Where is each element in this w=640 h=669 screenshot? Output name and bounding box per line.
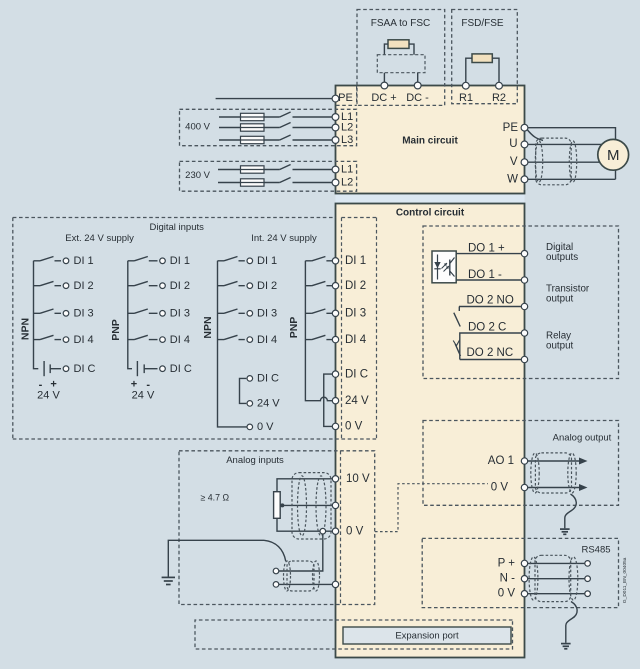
svg-text:DO 1 -: DO 1 - (468, 269, 502, 281)
svg-text:Expansion port: Expansion port (395, 631, 459, 642)
terminal AO 1 (521, 458, 527, 464)
group1 battery 24V (37, 361, 61, 402)
svg-text:DI 4: DI 4 (170, 334, 190, 346)
group3 switch DI 3 (218, 309, 245, 313)
svg-text:230 V: 230 V (185, 170, 210, 181)
svg-text:W: W (507, 173, 518, 185)
svg-text:M: M (607, 147, 620, 164)
group3 switch DI 4 (218, 335, 245, 339)
svg-text:DO 2 NO: DO 2 NO (467, 295, 514, 307)
svg-text:PE: PE (338, 92, 353, 104)
svg-text:R2: R2 (492, 92, 506, 104)
svg-text:L2: L2 (341, 176, 353, 188)
PE supply wire (216, 98, 336, 100)
svg-text:0 V: 0 V (491, 482, 509, 494)
svg-text:DI 3: DI 3 (257, 308, 277, 320)
terminal R2 (496, 82, 503, 89)
group4 switch DI 1 (305, 257, 332, 261)
svg-text:U: U (509, 138, 517, 150)
svg-text:Ext. 24 V supply: Ext. 24 V supply (65, 233, 134, 244)
svg-text:Analog inputs: Analog inputs (226, 455, 284, 466)
terminal L1 (332, 114, 339, 121)
relay actuator arrow (453, 340, 460, 346)
svg-text:FSD/FSE: FSD/FSE (461, 18, 504, 29)
wire module to DC- (417, 73, 419, 86)
svg-text:output: output (546, 294, 574, 305)
terminal DO 1 + (521, 250, 527, 256)
braking resistor (FSAA to FSC) (384, 40, 414, 55)
svg-text:DI C: DI C (170, 363, 192, 375)
svg-text:DI 4: DI 4 (257, 334, 277, 346)
230 V dashed box (180, 161, 357, 191)
svg-text:DI C: DI C (74, 363, 96, 375)
svg-text:DI 2: DI 2 (257, 280, 277, 292)
wire poti bottom to 0V (277, 518, 336, 531)
svg-text:NPN: NPN (202, 316, 214, 338)
svg-text:DO 2 C: DO 2 C (468, 321, 506, 333)
group2 switch DI 3 (128, 309, 158, 313)
motor cable shield (535, 138, 576, 185)
terminal P + (521, 560, 527, 566)
wire DO 2 C (460, 333, 525, 360)
svg-text:0 V: 0 V (345, 421, 363, 433)
relay NO contact hook (458, 307, 460, 312)
terminal 24 V (332, 398, 338, 404)
svg-text:24 V: 24 V (257, 398, 280, 410)
digital outputs dashed box (423, 226, 619, 379)
group4 bus wire to 24V terminal with hop (305, 261, 332, 401)
potentiometer R1 (274, 492, 285, 519)
svg-text:10 V: 10 V (346, 473, 370, 485)
svg-text:24 V: 24 V (132, 390, 155, 402)
wire DO 2 NO (459, 306, 525, 308)
svg-text:P +: P + (498, 557, 516, 569)
L1 400V line with fuse and switch (219, 112, 336, 121)
shield 0V junction node (320, 528, 326, 534)
group4 switch DI 2 (305, 281, 332, 285)
svg-text:400 V: 400 V (185, 122, 210, 133)
svg-text:0 V: 0 V (498, 588, 516, 600)
braking module dashed box (377, 55, 425, 73)
control circuit block (336, 204, 525, 658)
group3 bus wire to 0V (218, 261, 247, 427)
group3 switch DI 2 (218, 281, 245, 285)
svg-text:DI 2: DI 2 (170, 280, 190, 292)
analog output dashed box (423, 421, 619, 506)
terminal 10 V (332, 476, 338, 482)
svg-text:DC -: DC - (406, 92, 429, 104)
terminal DC+ (381, 82, 388, 89)
svg-text:PNP: PNP (110, 319, 122, 341)
svg-text:G_D011_EN_00405a: G_D011_EN_00405a (622, 557, 628, 603)
group3 DI C to 24V bracket wire (240, 378, 247, 403)
L2 230V line with fuse and switch (218, 178, 336, 187)
group1 switch DI 1 (34, 257, 62, 261)
svg-text:PE: PE (503, 122, 519, 134)
wire W phase (525, 178, 616, 180)
wire U phase (525, 143, 608, 145)
terminal RS485 0V (521, 591, 527, 597)
svg-text:24 V: 24 V (345, 395, 369, 407)
svg-text:DI 2: DI 2 (345, 280, 366, 292)
RS485 dashed box (422, 538, 618, 607)
wire lower pair bottom to block (279, 583, 336, 585)
svg-text:DO 2 NC: DO 2 NC (467, 347, 514, 359)
group2 switch DI 4 (128, 335, 158, 339)
DI terminals inner dashed box (342, 218, 377, 440)
expansion port (343, 627, 511, 644)
group1 switch DI 4 (34, 335, 62, 339)
L3 400V line with fuse and switch (219, 135, 336, 144)
L1 230V line with fuse and switch (218, 165, 336, 174)
top terminal labels (338, 92, 506, 104)
svg-text:DI C: DI C (257, 373, 279, 385)
svg-text:Int. 24 V supply: Int. 24 V supply (251, 233, 317, 244)
AO shield ground drain (560, 494, 576, 534)
svg-text:DO 1 +: DO 1 + (468, 243, 505, 255)
wire module to DC+ (383, 73, 385, 86)
optocoupler U1 (432, 251, 456, 283)
control DI terminal labels (345, 255, 369, 433)
terminal DI 2 (332, 283, 338, 289)
svg-text:L2: L2 (341, 121, 353, 133)
terminal AI (332, 502, 338, 508)
analog terminals inner dashed edge (340, 451, 342, 605)
RS485 shield ground drain (561, 602, 577, 649)
terminal L2 230V (332, 179, 339, 186)
svg-text:V: V (510, 156, 518, 168)
svg-text:L1: L1 (341, 163, 353, 175)
L2 400V line with fuse and switch (219, 123, 336, 132)
FSD/FSE dashed box (452, 10, 518, 104)
svg-text:DI 3: DI 3 (170, 308, 190, 320)
wire ground to lower shield (264, 540, 286, 561)
terminal DO 2 C (521, 330, 527, 336)
svg-text:RS485: RS485 (581, 545, 610, 556)
group1 DI C node (63, 366, 69, 372)
terminal DI 1 (332, 258, 338, 264)
group1 switch DI 2 (34, 281, 62, 285)
svg-text:DC +: DC + (371, 92, 396, 104)
PE terminal mini dashed box (336, 86, 357, 105)
wire PE to motor frame (525, 128, 616, 180)
left terminal labels L1 L2 L3 (341, 111, 353, 189)
svg-text:DI 1: DI 1 (345, 255, 366, 267)
svg-text:DI 1: DI 1 (257, 255, 277, 267)
svg-text:DI 3: DI 3 (345, 308, 366, 320)
wire RS485 0V (498, 588, 585, 600)
svg-text:DI 4: DI 4 (345, 334, 367, 346)
RS485 N- end node (585, 576, 591, 582)
terminal DI 4 (332, 336, 338, 342)
wire DO 1 + (456, 253, 524, 255)
terminal 0 V (332, 423, 338, 429)
terminal V (521, 159, 528, 166)
svg-text:DI 4: DI 4 (74, 334, 94, 346)
RS485 0V end node (585, 591, 591, 597)
svg-text:DI C: DI C (345, 368, 368, 380)
svg-text:N -: N - (500, 573, 516, 585)
gap strip between blocks (336, 195, 525, 203)
wire AO 1 out with arrow (488, 455, 588, 467)
terminal L2 (332, 124, 339, 131)
svg-text:DI 3: DI 3 (74, 308, 94, 320)
right terminal labels PE U V W (503, 122, 519, 185)
group2 switch DI 2 (128, 281, 158, 285)
terminal 0 V analog (332, 528, 338, 534)
svg-text:output: output (546, 341, 574, 352)
wire poti wiper to AI (282, 504, 335, 506)
svg-text:outputs: outputs (546, 252, 578, 263)
svg-text:Digital inputs: Digital inputs (150, 222, 205, 233)
group2 battery 24V (131, 361, 158, 402)
RS485 cable shield (529, 555, 578, 601)
svg-text:0 V: 0 V (257, 421, 274, 433)
group4 switch DI 3 (305, 309, 332, 313)
main circuit block (336, 86, 525, 194)
group4 switch DI 4 (305, 335, 332, 339)
digital inputs outer dashed box (13, 218, 342, 440)
expansion port dashed box (195, 620, 513, 649)
relay contact arm (454, 313, 460, 327)
svg-text:L3: L3 (341, 134, 353, 146)
terminal DO 1 - (521, 277, 527, 283)
svg-text:Analog output: Analog output (553, 433, 612, 444)
motor M (598, 139, 629, 170)
svg-text:Control circuit: Control circuit (396, 208, 465, 219)
group3 0V node (247, 424, 253, 430)
terminal AI 2 (332, 581, 338, 587)
wire PE to cable shield (528, 130, 544, 140)
wire AO 0V out with arrow (491, 482, 588, 494)
terminal DI C (332, 371, 338, 377)
digital outputs labels (546, 242, 590, 352)
ground wire with arrow (162, 540, 264, 584)
lower cable shield (284, 561, 320, 591)
group4 DI C to 0V bracket wire (324, 374, 333, 426)
analog inputs dashed box (179, 451, 375, 605)
wire poti top to 10V (277, 479, 336, 492)
terminal N - (521, 576, 527, 582)
svg-text:DI 1: DI 1 (74, 255, 94, 267)
group3 DI C node (247, 376, 253, 382)
wire N - (500, 573, 585, 585)
svg-text:DI 1: DI 1 (170, 255, 190, 267)
wire DO 1 - (456, 279, 524, 281)
FSAA to FSC dashed box (357, 10, 445, 106)
terminal PE left (332, 95, 339, 102)
svg-text:0 V: 0 V (346, 525, 364, 537)
svg-text:AO 1: AO 1 (488, 455, 514, 467)
svg-text:FSAA to FSC: FSAA to FSC (371, 18, 430, 29)
wire P + (498, 557, 585, 569)
resistor (FSD/FSE) (466, 54, 499, 86)
RS485 P+ end node (585, 561, 591, 567)
terminal R1 (462, 82, 469, 89)
svg-text:24 V: 24 V (37, 390, 60, 402)
svg-text:Main circuit: Main circuit (402, 136, 458, 147)
terminal DO 2 NO (521, 303, 527, 309)
lower analog pair terminals (273, 568, 279, 574)
svg-text:PNP: PNP (288, 317, 300, 339)
terminal U (521, 141, 528, 148)
group2 bus wire (128, 261, 132, 369)
svg-text:R1: R1 (459, 92, 473, 104)
group3 24V node (247, 401, 253, 407)
group1 bus wire (34, 261, 39, 369)
wire V phase (525, 161, 608, 163)
terminal DO 2 NC (521, 356, 527, 362)
svg-text:≥ 4.7 Ω: ≥ 4.7 Ω (201, 493, 230, 503)
group2 switch DI 1 (128, 257, 158, 261)
group3 switch DI 1 (218, 257, 245, 261)
terminal L1 230V (332, 166, 339, 173)
terminal W (521, 176, 528, 183)
AO cable shield (531, 453, 576, 493)
analog input cable shield (292, 473, 331, 539)
group2 DI C node (160, 366, 166, 372)
400 V dashed box (180, 109, 357, 145)
terminal DI 3 (332, 310, 338, 316)
terminal L3 (332, 137, 339, 144)
terminal PE right (521, 124, 528, 131)
wire DO 2 NC (460, 359, 525, 361)
internal 0V dashed link (375, 484, 488, 532)
svg-text:DI 2: DI 2 (74, 280, 94, 292)
group1 switch DI 3 (34, 309, 62, 313)
terminal AO 0V (521, 484, 527, 490)
wire junction down to lower pair (279, 534, 323, 571)
svg-text:NPN: NPN (20, 318, 32, 340)
terminal DC- (414, 82, 421, 89)
